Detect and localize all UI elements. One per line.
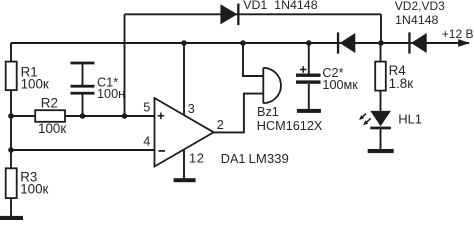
junction: feedback / + input net — [122, 113, 128, 119]
svg-text:1.8к: 1.8к — [389, 76, 414, 91]
wire: left divider column — [10, 43, 12, 216]
svg-text:2: 2 — [217, 118, 224, 132]
svg-text:1N4148: 1N4148 — [395, 13, 439, 27]
plus mark (non-inverting input) — [158, 113, 165, 120]
ground: LED cathode — [368, 149, 394, 153]
wire: feedback vertical (top wire to + input) — [124, 14, 126, 116]
svg-text:VD2,VD3: VD2,VD3 — [395, 0, 445, 13]
svg-text:5: 5 — [143, 100, 150, 114]
svg-text:100к: 100к — [38, 121, 66, 136]
wire: C1 lower lead — [82, 94, 84, 116]
wire: non-inverting input net (to pin 5) — [11, 115, 155, 117]
svg-text:HCM1612X: HCM1612X — [257, 119, 323, 133]
ground: comparator pin 12 — [174, 178, 196, 182]
diode VD2 — [337, 32, 355, 53]
svg-text:3: 3 — [188, 102, 195, 116]
svg-text:R2: R2 — [41, 95, 58, 110]
ground: C2 negative — [297, 109, 321, 113]
junction: rail / C2 — [306, 40, 312, 46]
svg-text:100н: 100н — [97, 87, 125, 101]
wire: LED cathode to ground — [380, 129, 382, 150]
buzzer Bz1 (half-circle body) — [263, 68, 281, 103]
LED emission arrows — [358, 112, 372, 127]
op-amp comparator DA1 triangle — [155, 98, 214, 167]
LED HL1 — [370, 111, 391, 129]
svg-text:100мк: 100мк — [322, 78, 358, 92]
svg-text:100к: 100к — [21, 77, 49, 92]
junction: divider / - input net — [8, 147, 14, 153]
wire: output pin 2 to buzzer lower lead — [214, 94, 264, 133]
svg-text:12: 12 — [189, 151, 205, 165]
wire: comparator pin 12 to ground — [183, 150, 185, 179]
junction: divider / + input net — [8, 113, 14, 119]
junction: C1 / + input net — [80, 113, 86, 119]
junction: rail / R4 and top wire — [378, 40, 384, 46]
wire: top feedback wire through VD1 — [125, 13, 382, 15]
+12V supply arrow — [458, 39, 470, 47]
resistor R1 — [6, 62, 17, 91]
capacitor C2 (polarized) — [296, 74, 321, 84]
resistor R2 — [35, 110, 65, 122]
ground: divider bottom — [0, 216, 23, 220]
diode VD1 — [220, 4, 239, 26]
wire: +V rail (left end to +12V arrow) — [11, 42, 469, 44]
minus mark (inverting input) — [159, 150, 165, 152]
svg-text:+12 В: +12 В — [442, 27, 474, 41]
wire: C1 upper lead — [82, 64, 84, 86]
svg-text:DA1: DA1 — [221, 152, 246, 166]
wire: C2 lower lead to ground — [308, 84, 310, 109]
svg-text:4: 4 — [143, 135, 150, 149]
wire: top wire drop to rail — [380, 14, 382, 43]
svg-text:VD1 1N4148: VD1 1N4148 — [243, 0, 318, 12]
junction: rail / buzzer upper lead — [240, 40, 246, 46]
junction: rail / pin3 — [181, 40, 187, 46]
svg-text:LM339: LM339 — [249, 151, 289, 166]
svg-text:Bz1: Bz1 — [257, 105, 279, 119]
svg-text:100к: 100к — [20, 182, 48, 197]
polarity + mark of C2 — [300, 66, 307, 73]
wire: C2 upper lead — [308, 43, 310, 74]
wire: comparator pin 3 supply lead — [183, 43, 185, 115]
resistor R3 — [6, 168, 17, 198]
capacitor C1 (sensor electrode plate on top) — [71, 62, 95, 95]
wire: buzzer upper lead from rail — [243, 43, 263, 76]
wire: inverting input net (to pin 4) — [11, 149, 155, 151]
svg-text:HL1: HL1 — [398, 112, 422, 127]
wire: R4 to LED anode — [380, 91, 382, 112]
wire: R4 upper lead — [380, 43, 382, 62]
diode VD3 — [408, 32, 426, 53]
resistor R4 — [375, 62, 386, 91]
